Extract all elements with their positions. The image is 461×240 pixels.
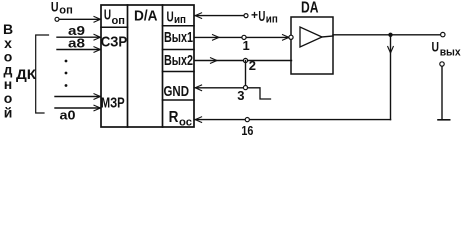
DAC internal divider right bbox=[162, 5, 164, 127]
svg-text:й: й bbox=[4, 105, 13, 121]
wire op-amp output bbox=[333, 34, 441, 36]
op-amp triangle bbox=[300, 27, 322, 47]
analog ground stub bbox=[248, 88, 271, 99]
svg-text:оп: оп bbox=[112, 15, 126, 27]
wire a8 bbox=[57, 49, 100, 51]
ellipsis dots input bus bbox=[65, 60, 68, 87]
cell border below Uоп bbox=[101, 26, 128, 28]
svg-text:U: U bbox=[104, 7, 111, 24]
svg-text:Вых2: Вых2 bbox=[164, 52, 193, 69]
cell border below Вых1 bbox=[163, 49, 195, 51]
svg-text:3: 3 bbox=[237, 88, 244, 103]
terminal circle Uвых bottom bbox=[440, 62, 444, 66]
op-amp input circle bbox=[289, 35, 293, 39]
svg-text:DA: DA bbox=[301, 0, 319, 17]
wire a9 bbox=[57, 36, 100, 38]
pin 16 circle bbox=[245, 118, 249, 122]
cell border below Вых2 bbox=[163, 71, 195, 73]
op-amp DA box bbox=[291, 17, 333, 74]
svg-text:ДК: ДК bbox=[16, 66, 36, 82]
svg-text:Вых1: Вых1 bbox=[164, 29, 193, 46]
pin label Rос bbox=[169, 109, 192, 128]
wire +Uип supply bbox=[195, 15, 246, 17]
wire a0 bbox=[55, 107, 100, 109]
svg-text:U: U bbox=[258, 8, 265, 25]
terminal circle Uоп bbox=[55, 17, 59, 21]
current direction arrow down bbox=[388, 47, 394, 54]
cell border below Uип bbox=[163, 25, 195, 27]
pin 3 circle bbox=[243, 86, 247, 90]
node label "Входной" (vertical text) bbox=[3, 21, 13, 121]
wire bottom terminal down bbox=[441, 66, 443, 120]
pin label Uип bbox=[167, 8, 187, 26]
svg-text:U: U bbox=[51, 0, 59, 14]
terminal circle Uвых top bbox=[441, 32, 445, 36]
svg-text:1: 1 bbox=[243, 38, 250, 53]
op-amp output stub bbox=[322, 36, 333, 37]
pin 2 circle bbox=[243, 58, 247, 62]
bottom terminal foot bar bbox=[438, 119, 450, 121]
svg-text:16: 16 bbox=[241, 123, 253, 137]
junction dot output node bbox=[388, 33, 392, 37]
cell border below GND bbox=[163, 99, 195, 101]
wire a1 (unlabeled) bbox=[55, 96, 100, 98]
svg-text:D/A: D/A bbox=[134, 8, 158, 25]
feedback riser to output node bbox=[390, 35, 392, 120]
svg-text:ип: ип bbox=[266, 13, 278, 25]
node label Uвых bbox=[432, 38, 461, 58]
DAC block outline bbox=[101, 5, 194, 127]
wire GND to pin3 node bbox=[195, 87, 246, 89]
node Uоп (reference input label) bbox=[51, 0, 73, 17]
wire Uоп to DAC bbox=[59, 18, 100, 20]
wire Rос feedback bbox=[195, 119, 391, 121]
terminal circle +Uип bbox=[244, 14, 248, 18]
bracket for input code lines bbox=[36, 35, 49, 113]
node label +Uип bbox=[251, 8, 278, 26]
svg-text:GND: GND bbox=[164, 83, 190, 100]
svg-text:оп: оп bbox=[59, 5, 73, 17]
svg-text:вых: вых bbox=[440, 47, 461, 59]
svg-text:ос: ос bbox=[179, 116, 192, 128]
DAC internal divider left bbox=[127, 5, 129, 127]
svg-text:2: 2 bbox=[249, 58, 256, 73]
svg-text:СЗР: СЗР bbox=[101, 34, 128, 51]
wire Вых2 to op-amp bbox=[195, 60, 292, 62]
svg-text:a0: a0 bbox=[60, 108, 76, 123]
svg-text:МЗР: МЗР bbox=[101, 95, 125, 112]
svg-text:R: R bbox=[169, 109, 179, 126]
pin label Uоп (inside block) bbox=[104, 7, 125, 27]
svg-text:U: U bbox=[167, 8, 174, 25]
pin 1 circle bbox=[242, 35, 246, 39]
svg-text:a8: a8 bbox=[68, 36, 85, 51]
wire pin2 down to pin3 node bbox=[245, 61, 247, 88]
svg-text:+: + bbox=[251, 8, 258, 22]
svg-text:ип: ип bbox=[174, 14, 186, 26]
wire Вых1 to op-amp bbox=[195, 36, 289, 38]
svg-text:U: U bbox=[432, 38, 440, 54]
